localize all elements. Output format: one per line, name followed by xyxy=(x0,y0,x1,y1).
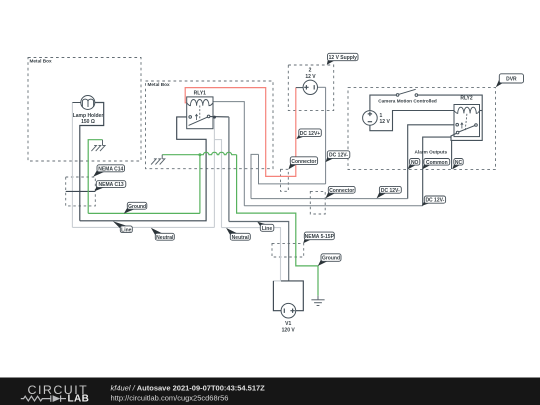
svg-text:Camera Motion Controlled: Camera Motion Controlled xyxy=(378,98,437,103)
svg-text:Line: Line xyxy=(262,226,272,232)
flag: Connector (DC 12V-) xyxy=(325,186,355,198)
flag: Line (lamp) xyxy=(113,221,132,233)
chassis ground (lamp box) xyxy=(91,140,105,151)
svg-text:Ground: Ground xyxy=(128,204,146,210)
svg-text:DC 12V+: DC 12V+ xyxy=(300,131,321,137)
flag: DC 12V- (run) xyxy=(377,186,402,198)
wire: supply plus stub xyxy=(296,87,303,89)
svg-text:kf4uel / Autosave 2021-09-07T0: kf4uel / Autosave 2021-09-07T00:43:54.51… xyxy=(111,384,266,393)
voltage source 1 (DVR 12 V) xyxy=(363,111,391,126)
svg-text:NEMA 5-15P: NEMA 5-15P xyxy=(305,234,335,240)
flag: DC 12V- (supply) xyxy=(326,151,350,162)
neutral (light gray) wire group xyxy=(72,103,281,281)
wire: neutral run to V1 xyxy=(222,228,281,281)
wire: V1 hookup box xyxy=(281,281,303,311)
flag: DVR xyxy=(496,74,524,88)
wire: coil return run east to Common xyxy=(244,205,422,207)
svg-text:150 Ω: 150 Ω xyxy=(81,119,95,125)
wire: lamp left terminal down xyxy=(71,103,73,228)
wire: RLY1 coil left to supply plus (through connector) xyxy=(185,88,296,177)
voltage source 2 (12 V supply) xyxy=(303,68,317,95)
connector box (DC 12V-, dashed) xyxy=(310,191,325,214)
flag: Line (V1) xyxy=(257,222,274,232)
svg-text:Line: Line xyxy=(121,227,131,233)
wire: RLY2 coil right stub xyxy=(480,110,483,112)
DVR box (dashed) xyxy=(348,87,496,169)
svg-text:NEMA C13: NEMA C13 xyxy=(99,182,124,188)
wire: V1 top-left corner xyxy=(273,280,281,282)
wire: relay box chassis ground stub xyxy=(162,154,200,156)
svg-text:Connector: Connector xyxy=(291,159,316,165)
svg-text:DC 12V-: DC 12V- xyxy=(381,188,400,194)
flag: 12 V Supply xyxy=(327,53,358,65)
metal box 2 (relay enclosure, dashed) xyxy=(146,81,274,169)
svg-text:http://circuitlab.com/cugx25cd: http://circuitlab.com/cugx25cd68r56 xyxy=(111,394,229,403)
wire: RLY1 coil right drop xyxy=(213,102,244,206)
voltage source V1 (120 V) xyxy=(281,303,296,333)
wire: connector stub (NEMA C13) xyxy=(66,190,96,192)
svg-text:NEMA C14: NEMA C14 xyxy=(98,166,123,172)
svg-text:Alarm Outputs: Alarm Outputs xyxy=(415,150,448,155)
relay RLY2 xyxy=(454,96,480,137)
svg-text:Metal Box: Metal Box xyxy=(148,82,171,87)
svg-text:Common: Common xyxy=(426,160,448,166)
wire: line run lamp to relay common xyxy=(80,117,206,221)
flag: NEMA C14 xyxy=(93,165,124,177)
DVR internal wire group xyxy=(370,95,482,206)
svg-text:Metal Box: Metal Box xyxy=(30,58,53,63)
earth ground (outlet) xyxy=(311,296,324,306)
line (dark) wire group xyxy=(66,103,304,311)
wire: neutral run lamp to center xyxy=(72,226,214,228)
camera motion switch SW1 xyxy=(378,89,437,103)
12 V supply box (dashed) xyxy=(288,65,333,111)
DC 12V- (medium gray) wire group xyxy=(213,87,423,205)
flag: DC 12V+ xyxy=(296,129,321,139)
svg-text:NO: NO xyxy=(411,160,419,166)
wire: RLY2 common contact to alarm output xyxy=(423,137,451,206)
wire: source1 bottom to RLY2 coil left xyxy=(370,111,454,131)
junction dots xyxy=(213,116,216,119)
wire: DC 12V- run west xyxy=(259,154,326,184)
wire: camera switch wrap to RLY2 common xyxy=(418,95,483,140)
wire: DC 12V- run east to NO xyxy=(251,198,408,200)
svg-text:Neutral: Neutral xyxy=(156,235,174,241)
ground (green) wire group xyxy=(88,140,318,296)
flag: NC xyxy=(452,159,463,170)
svg-text:NC: NC xyxy=(455,160,463,166)
wire: ground run lamp to node xyxy=(88,212,200,214)
svg-text:Neutral: Neutral xyxy=(232,235,250,241)
wire: neutral riser to relay NO junction xyxy=(213,117,215,227)
wire: ground riser to relay box ground xyxy=(199,155,201,214)
svg-text:12 V: 12 V xyxy=(380,119,391,125)
relay RLY1 xyxy=(187,91,213,129)
flag: NEMA C13 xyxy=(95,181,126,192)
wire: lamp chassis ground corner xyxy=(88,140,102,214)
svg-text:RLY2: RLY2 xyxy=(460,96,473,102)
DC 12V+ (red) wire group xyxy=(185,88,296,177)
wire: lamp right terminal jog down xyxy=(80,103,104,221)
wire: supply right terminal east xyxy=(318,86,326,88)
wire: switched line drop xyxy=(228,117,230,222)
wire: switched line run to V1 xyxy=(229,222,289,281)
svg-text:DC 12V-: DC 12V- xyxy=(329,153,348,159)
svg-text:V1: V1 xyxy=(285,321,291,327)
flag: Ground (outlet) xyxy=(318,254,341,266)
metal box 1 (lamp enclosure, dashed) xyxy=(28,58,141,162)
connector box (DC 12V+, dashed) xyxy=(281,169,289,191)
wire: ground drop and run to outlet xyxy=(237,155,318,296)
wire: relay NO east xyxy=(210,116,229,118)
flag: NEMA 5-15P xyxy=(303,232,334,243)
svg-text:2: 2 xyxy=(309,68,312,74)
flag: Neutral (V1) xyxy=(226,228,250,241)
svg-text:1: 1 xyxy=(380,113,383,119)
chassis ground (relay box) xyxy=(151,155,165,165)
wire: RLY2 NO to alarm output xyxy=(408,125,454,199)
circuitlab logo xyxy=(21,383,89,404)
FOOTER xyxy=(0,378,540,405)
svg-text:120 V: 120 V xyxy=(282,328,296,334)
wire: ground with hops over four wires xyxy=(200,152,237,154)
wire: neutral lane jog xyxy=(214,140,221,228)
flag: DC 12V- (common) xyxy=(422,196,446,206)
svg-text:DVR: DVR xyxy=(506,77,517,83)
flag: NO xyxy=(408,159,420,170)
wire: RLY2 NC stub down xyxy=(451,140,453,169)
flag: Common xyxy=(422,159,449,170)
svg-text:LAB: LAB xyxy=(68,394,90,405)
wire: supply minus drop xyxy=(325,87,327,184)
svg-text:Connector: Connector xyxy=(329,188,354,194)
lamp holder LP1 xyxy=(72,96,103,126)
svg-text:12 V Supply: 12 V Supply xyxy=(329,55,358,61)
flag: Ground (lamp) xyxy=(124,202,147,213)
svg-text:RLY1: RLY1 xyxy=(194,91,207,97)
connector box (NEMA C14/C13, dashed) xyxy=(66,177,96,206)
wire: source1 top to camera switch xyxy=(370,95,396,111)
connector box (NEMA 5-15P, dashed) xyxy=(272,243,304,257)
svg-text:Ground: Ground xyxy=(322,256,340,262)
wire: DC 12V- lane jog xyxy=(251,154,259,198)
flag: Connector (DC 12V+) xyxy=(288,157,317,170)
svg-text:DC 12V-: DC 12V- xyxy=(425,198,444,204)
svg-text:12 V: 12 V xyxy=(305,74,316,80)
flag: Neutral (lamp) xyxy=(151,228,174,241)
